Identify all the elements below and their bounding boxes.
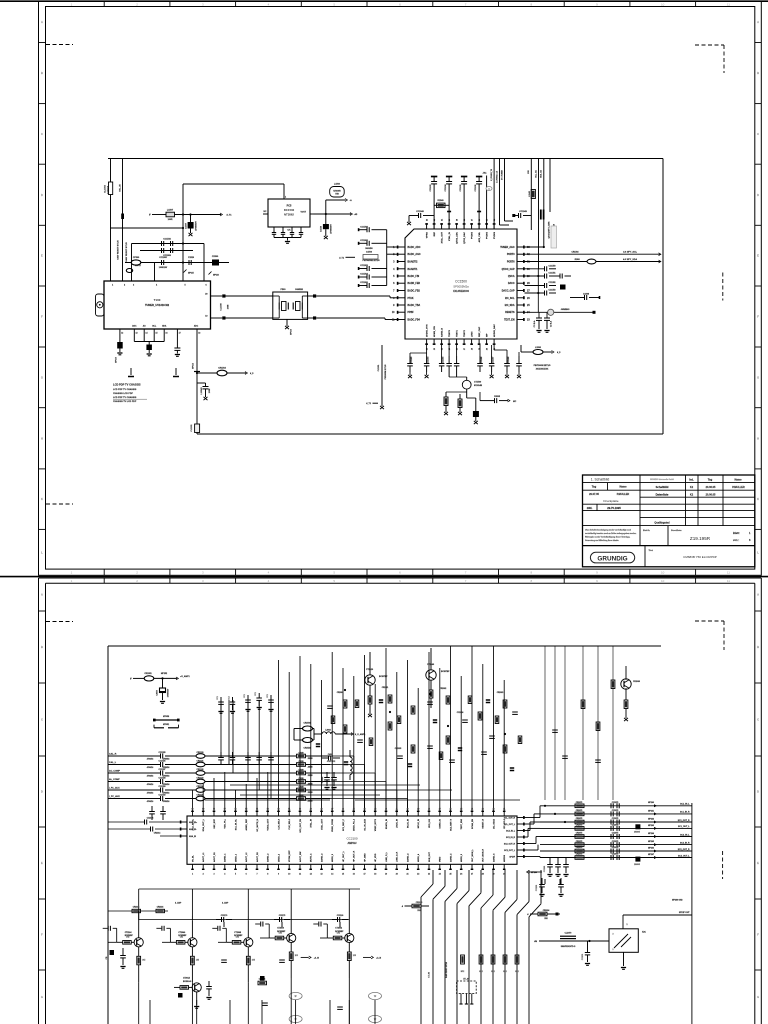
amplifier top pin 42 bbox=[310, 811, 312, 817]
capacitor CC1550 right of IC bbox=[525, 268, 545, 270]
jumper M7051 bbox=[154, 727, 164, 729]
svg-text:P.MULLER: P.MULLER bbox=[732, 486, 745, 489]
capacitor CC2 mid bbox=[258, 752, 260, 757]
svg-text:Titel:: Titel: bbox=[649, 549, 654, 552]
capacitor CC2 mid bbox=[247, 752, 249, 757]
svg-text:CC2170: CC2170 bbox=[221, 915, 228, 917]
svg-text:HP_VDD: HP_VDD bbox=[375, 853, 377, 862]
svg-text:J2585: J2585 bbox=[308, 801, 313, 803]
svg-text:CC2: CC2 bbox=[244, 694, 246, 697]
svg-text:CC1535: CC1535 bbox=[460, 185, 462, 192]
wire TUNER_AGC from pin 33 bbox=[525, 246, 544, 248]
svg-text:42: 42 bbox=[385, 807, 387, 810]
amplifier top pin 45 bbox=[342, 811, 344, 817]
wire to amplifier top pin 28 bbox=[482, 664, 484, 811]
svg-text:JUNIOR5R: JUNIOR5R bbox=[327, 761, 336, 763]
svg-text:CC1551: CC1551 bbox=[549, 273, 556, 275]
capacitor CC1536 above IC bbox=[476, 176, 482, 178]
base resistor of CT2164 bbox=[117, 941, 123, 943]
svg-text:CR2075: CR2075 bbox=[576, 833, 583, 835]
jumper JA1 bbox=[486, 176, 488, 230]
svg-text:C1546: C1546 bbox=[320, 225, 323, 232]
amplifier top pin 31 bbox=[192, 811, 194, 817]
svg-text:XTAL_IN: XTAL_IN bbox=[310, 819, 313, 828]
resistor CR2 extra bbox=[495, 716, 499, 724]
tuner bottom pin wires bbox=[119, 329, 121, 342]
svg-text:CR2133: CR2133 bbox=[197, 777, 204, 779]
wire bus run 9 below amplifier bbox=[528, 870, 530, 902]
svg-text:J2585: J2585 bbox=[308, 775, 313, 777]
resistor CR2 extra bbox=[518, 736, 522, 744]
IC CC1500 top pin 38 bbox=[463, 223, 465, 229]
resistor CR2xxx bbox=[411, 706, 415, 714]
svg-text:BADC_AGC: BADC_AGC bbox=[408, 253, 421, 256]
svg-text:4.0 3IFY_SDA: 4.0 3IFY_SDA bbox=[623, 258, 638, 261]
svg-text:SC2_OUT_R: SC2_OUT_R bbox=[504, 844, 516, 846]
collector wire of CT2164 bbox=[138, 920, 140, 938]
capacitor CC1567 below IC bbox=[506, 356, 508, 363]
svg-text:SC_MUTE_N: SC_MUTE_N bbox=[257, 819, 259, 832]
svg-text:6: 6 bbox=[246, 874, 247, 876]
svg-text:CR2080: CR2080 bbox=[337, 692, 344, 694]
svg-text:55: 55 bbox=[245, 808, 247, 810]
svg-text:CR2034: CR2034 bbox=[543, 909, 550, 912]
capacitors near bottom edge bbox=[262, 1002, 268, 1004]
amplifier bottom pin 8 bbox=[267, 864, 269, 870]
svg-text:ADC: ADC bbox=[194, 325, 199, 328]
svg-text:4700/16: 4700/16 bbox=[147, 791, 154, 794]
junction bars on pin verticals bbox=[447, 211, 451, 213]
wire collector bus row bbox=[108, 910, 168, 912]
svg-text:AGND_1: AGND_1 bbox=[224, 853, 227, 862]
svg-text:SC2_OUT_L: SC2_OUT_L bbox=[678, 855, 690, 857]
svg-text:15: 15 bbox=[155, 333, 157, 335]
amplifier bottom pin 2 bbox=[202, 864, 204, 870]
capacitors CC2250 bbox=[541, 878, 543, 884]
voltage regulator IC DC1530 bbox=[268, 199, 310, 227]
svg-text:I2C_SDA2: I2C_SDA2 bbox=[492, 818, 495, 829]
svg-text:G: G bbox=[41, 375, 43, 379]
amplifier bottom pin 13 bbox=[321, 864, 323, 870]
svg-text:58: 58 bbox=[213, 808, 215, 810]
grounds below IC capacitor row bbox=[409, 372, 411, 375]
svg-text:CR2: CR2 bbox=[279, 932, 282, 934]
svg-text:CT_08: CT_08 bbox=[429, 972, 431, 977]
wire to amplifier top pin 8 bbox=[267, 772, 269, 811]
svg-text:+A_M: +A_M bbox=[376, 957, 382, 960]
svg-text:CC2100: CC2100 bbox=[346, 837, 357, 841]
svg-text:CC1549: CC1549 bbox=[519, 210, 527, 213]
wire row C bbox=[125, 262, 229, 264]
sheet2 fold mark right middle bbox=[722, 851, 724, 879]
svg-text:ANA_IN+: ANA_IN+ bbox=[189, 821, 198, 824]
svg-text:21: 21 bbox=[406, 874, 408, 876]
svg-text:CR2075: CR2075 bbox=[576, 818, 583, 820]
svg-text:39: 39 bbox=[417, 808, 419, 810]
svg-text:3: 3 bbox=[613, 934, 614, 936]
svg-text:2: 2 bbox=[203, 874, 204, 876]
svg-text:DGND_IO: DGND_IO bbox=[440, 819, 442, 829]
sheet1 zone ticks and numbers bbox=[103, 1, 105, 6]
capacitor CC1506 bbox=[358, 285, 367, 287]
emitter network of CT2050 bbox=[290, 942, 292, 952]
capacitor C2184 bbox=[122, 948, 124, 955]
svg-text:12: 12 bbox=[121, 333, 123, 335]
lower transistor CT201A bbox=[192, 983, 201, 992]
amplifier right pin SC2_IN_R bbox=[517, 836, 525, 838]
svg-text:ANA_IN-: ANA_IN- bbox=[189, 828, 197, 831]
wire to amplifier top pin 13 bbox=[321, 680, 323, 811]
amplifier bottom pin 6 bbox=[245, 864, 247, 870]
svg-text:QVCA: QVCA bbox=[508, 275, 515, 278]
amplifier bottom pin 24 bbox=[439, 864, 441, 870]
svg-text:CR2I8: CR2I8 bbox=[298, 761, 303, 763]
svg-text:43: 43 bbox=[425, 219, 428, 221]
capacitor CC1562 below IC bbox=[441, 356, 443, 363]
svg-text:CR2075: CR2075 bbox=[576, 847, 583, 849]
svg-text:CC1533: CC1533 bbox=[430, 185, 432, 192]
resistor CR2xxx bbox=[388, 695, 392, 703]
svg-text:U9L.U5: U9L.U5 bbox=[119, 183, 121, 191]
IC CC1500 bottom pin 13 bbox=[433, 339, 435, 345]
svg-text:HP_OUT_L: HP_OUT_L bbox=[343, 850, 345, 862]
amplifier left pin ANA_IN- bbox=[180, 828, 187, 830]
svg-text:SMAFD2010TD-S: SMAFD2010TD-S bbox=[561, 945, 576, 948]
svg-text:CC1516: CC1516 bbox=[163, 239, 171, 241]
svg-text:11: 11 bbox=[299, 874, 301, 876]
svg-text:CC1536: CC1536 bbox=[475, 185, 477, 192]
amplifier bottom pin 22 bbox=[417, 864, 419, 870]
wire to amplifier top pin 3 bbox=[213, 778, 215, 811]
svg-text:A: A bbox=[757, 593, 759, 597]
svg-text:AFE_CML: AFE_CML bbox=[478, 231, 481, 242]
svg-text:von :: von : bbox=[733, 539, 739, 542]
DC1530 pin VOUT right bbox=[310, 213, 314, 215]
IC CC1500 right pin 24 bbox=[517, 311, 525, 313]
amplifier top pin 37 bbox=[256, 811, 258, 817]
svg-text:Weitergabe sowie Vervielfaelti: Weitergabe sowie Vervielfaeltigung diese… bbox=[585, 535, 631, 538]
sheet2 zone ticks and numbers bbox=[103, 578, 105, 583]
IC CC1500 left pin 9 bbox=[397, 304, 405, 306]
output net SC2_OUT_R with filter bbox=[540, 850, 692, 852]
amplifier bottom pin 11 bbox=[299, 864, 301, 870]
IC CC1500 top pin 37 bbox=[471, 223, 473, 229]
amplifier top pin 36 bbox=[245, 811, 247, 817]
output net SC1_OUT_L with filter bbox=[540, 827, 692, 829]
svg-text:57: 57 bbox=[224, 808, 226, 810]
svg-text:J2585: J2585 bbox=[308, 792, 313, 794]
resistor CR2I11 bbox=[297, 780, 306, 784]
svg-text:PVD09: PVD09 bbox=[494, 231, 496, 239]
capacitor CC2xxx bbox=[449, 759, 455, 761]
resistor CR1501 bbox=[444, 397, 448, 406]
capacitor CC2xxx bbox=[427, 745, 433, 747]
svg-text:CX500: CX500 bbox=[212, 256, 219, 258]
svg-text:CC2035: CC2035 bbox=[395, 748, 402, 750]
amplifier bottom pin 14 bbox=[331, 864, 333, 870]
amplifier top pin 53 bbox=[428, 811, 430, 817]
wire top feed horizontal bbox=[183, 183, 284, 185]
resistor CR2xxx bbox=[446, 736, 450, 744]
svg-text:B: B bbox=[41, 71, 43, 75]
svg-text:CLK_SEL0: CLK_SEL0 bbox=[278, 818, 280, 829]
capacitor C1546 blob bbox=[325, 214, 327, 224]
svg-text:U_SVHS2_C5: U_SVHS2_C5 bbox=[497, 171, 499, 183]
emitter network of CT2052 bbox=[348, 942, 350, 952]
collector wire of CT2046 bbox=[191, 920, 193, 938]
svg-text:SDA_SA: SDA_SA bbox=[540, 170, 543, 178]
svg-text:CC2190: CC2190 bbox=[337, 915, 344, 917]
svg-text:CC1583: CC1583 bbox=[411, 357, 413, 364]
svg-text:CC2160: CC2160 bbox=[159, 795, 166, 797]
svg-text:J2585: J2585 bbox=[308, 767, 313, 769]
svg-text:BADC_FB4: BADC_FB4 bbox=[408, 319, 421, 322]
svg-text:VDDA_OUT: VDDA_OUT bbox=[267, 818, 270, 830]
coil vertical bbox=[350, 757, 352, 775]
IF demodulator IC CC1500 body bbox=[405, 229, 517, 339]
wire to amplifier top pin 4 bbox=[224, 772, 226, 811]
ground of DC1530 bbox=[287, 238, 289, 241]
svg-text:L1504N: L1504N bbox=[200, 387, 203, 395]
svg-text:AOUT_L2: AOUT_L2 bbox=[245, 852, 248, 862]
inductor L1590 below IC right bbox=[521, 351, 533, 353]
amplifier bottom pin 5 bbox=[235, 864, 237, 870]
wire row B with capacitors CC1509 bbox=[140, 250, 193, 252]
IC CC1500 right pin 26 bbox=[517, 297, 525, 299]
resistor CR1504 on ADC branch bbox=[197, 372, 246, 374]
svg-text:CT2046: CT2046 bbox=[178, 931, 185, 934]
svg-text:CC2034: CC2034 bbox=[457, 711, 464, 714]
svg-text:SC1_IN_RL: SC1_IN_RL bbox=[235, 818, 237, 830]
svg-text:CC2: CC2 bbox=[229, 696, 231, 699]
wire bus run 6 below amplifier bbox=[492, 870, 494, 895]
svg-text:HP_OUT_R: HP_OUT_R bbox=[354, 850, 356, 862]
amplifier top pin 49 bbox=[385, 811, 387, 817]
amplifier bottom pin 27 bbox=[471, 864, 473, 870]
ground of C1546 bbox=[324, 236, 328, 239]
svg-text:MP252: MP252 bbox=[161, 673, 168, 675]
IC CC1500 top pin 42 bbox=[433, 223, 435, 229]
svg-text:18: 18 bbox=[198, 333, 200, 335]
capacitor CC2156 bbox=[160, 762, 162, 767]
svg-text:39: 39 bbox=[456, 219, 458, 221]
svg-text:VCOM_BYP: VCOM_BYP bbox=[289, 850, 291, 862]
svg-text:23: 23 bbox=[428, 874, 430, 876]
wire bus run 5 below amplifier bbox=[480, 870, 482, 893]
svg-text:5V_TUNER: 5V_TUNER bbox=[502, 169, 504, 180]
svg-text:Druckplatte: Druckplatte bbox=[603, 499, 619, 503]
svg-text:VOUT: VOUT bbox=[300, 212, 306, 214]
resistor CR2 extra bbox=[369, 738, 373, 746]
svg-text:MP244: MP244 bbox=[648, 832, 654, 835]
svg-text:20.06.05: 20.06.05 bbox=[706, 486, 716, 489]
svg-text:17: 17 bbox=[363, 874, 365, 876]
resistor CR2132 bbox=[196, 771, 205, 776]
capacitor CC1534 above IC bbox=[446, 176, 452, 178]
svg-text:SC2_IN_R: SC2_IN_R bbox=[506, 837, 516, 839]
wire DC1530 VIN stub bbox=[283, 184, 285, 199]
svg-text:CC1508: CC1508 bbox=[360, 240, 368, 242]
capacitor CC2157 bbox=[160, 771, 162, 776]
svg-text:10: 10 bbox=[661, 579, 665, 583]
resistor CR2 extra bbox=[355, 700, 359, 708]
svg-text:SC_IN_AUX: SC_IN_AUX bbox=[363, 818, 366, 830]
svg-text:CR2: CR2 bbox=[236, 937, 239, 939]
capacitor CC2080 bbox=[565, 858, 567, 864]
wire bus run 4 below amplifier bbox=[468, 870, 470, 891]
svg-text:2N2: 2N2 bbox=[417, 910, 420, 912]
svg-text:LVD5: LVD5 bbox=[471, 331, 473, 337]
amplifier bottom pin 29 bbox=[493, 864, 495, 870]
sheet2 schematic border top bbox=[108, 645, 661, 647]
transistor CT2052 bbox=[345, 933, 354, 942]
svg-text:4700N/35V: 4700N/35V bbox=[330, 224, 333, 234]
amplifier bottom pin 4 bbox=[224, 864, 226, 870]
wire to amplifier top pin 9 bbox=[278, 660, 280, 811]
wire tuner ADC net vertical to bottom border bbox=[196, 329, 198, 434]
amplifier top pin 54 bbox=[439, 811, 441, 817]
emitter network of CT2048 bbox=[247, 947, 249, 957]
svg-text:37: 37 bbox=[471, 219, 473, 221]
svg-text:29.70.1995: 29.70.1995 bbox=[607, 506, 621, 510]
wire bus run 8 below amplifier bbox=[516, 870, 518, 899]
wire to amplifier top pin 19 bbox=[385, 648, 387, 811]
IC CC1500 top pin 41 bbox=[441, 223, 443, 229]
testpoint oval bbox=[289, 1015, 302, 1022]
svg-text:1K5: 1K5 bbox=[353, 955, 356, 957]
wire to amplifier top pin 10 bbox=[288, 672, 290, 811]
svg-text:Blatt-Nr.: Blatt-Nr. bbox=[643, 529, 650, 532]
transistor CT2164 bbox=[134, 938, 143, 947]
svg-text:C: C bbox=[757, 718, 759, 722]
svg-text:PPBF: PPBF bbox=[408, 312, 415, 314]
wire bus run 1 below amplifier bbox=[432, 870, 434, 884]
SAW crystal element 2 bbox=[296, 302, 301, 311]
svg-text:K: K bbox=[41, 497, 43, 501]
resistor L1540 on vertical bbox=[531, 190, 535, 199]
svg-text:Ohne Schrift-Genehmigung weder: Ohne Schrift-Genehmigung weder vervielfa… bbox=[585, 529, 631, 532]
sheet2 schematic border left bbox=[107, 646, 109, 1024]
right bus vertical to sheet edge bbox=[691, 803, 693, 1024]
amplifier top pin 48 bbox=[374, 811, 376, 817]
svg-text:LRCK_IN: LRCK_IN bbox=[397, 819, 399, 829]
IC CC1500 right pin 29 bbox=[517, 275, 525, 277]
IC CC1500 left pin 1 bbox=[397, 246, 405, 248]
svg-text:RESETS: RESETS bbox=[505, 312, 515, 314]
wire bus run 7 below amplifier bbox=[504, 870, 506, 897]
svg-text:CL1501: CL1501 bbox=[378, 365, 380, 372]
svg-text:4.0 3IFY_SCL: 4.0 3IFY_SCL bbox=[623, 251, 638, 254]
svg-text:SC1_IN_R: SC1_IN_R bbox=[680, 812, 690, 814]
svg-text:CC2314: CC2314 bbox=[147, 817, 154, 820]
svg-text:C1507: C1507 bbox=[186, 222, 188, 229]
svg-text:TEST1: TEST1 bbox=[456, 329, 458, 337]
wire to amplifier top pin 14 bbox=[331, 652, 333, 811]
svg-text:CL2070: CL2070 bbox=[565, 932, 572, 934]
amplifier top pin 51 bbox=[407, 811, 409, 817]
svg-text:CR2I8: CR2I8 bbox=[298, 769, 303, 771]
capacitor CC2170 bbox=[216, 919, 221, 921]
svg-text:BC857BF: BC857BF bbox=[379, 676, 388, 678]
svg-text:BCLK_IN: BCLK_IN bbox=[407, 819, 409, 829]
svg-text:MP1/5: MP1/5 bbox=[188, 273, 195, 275]
svg-text:CC1503: CC1503 bbox=[360, 265, 368, 267]
wire left SAW bus down with label CL1501 bbox=[381, 345, 383, 406]
svg-text:VDD_PLL: VDD_PLL bbox=[225, 818, 227, 828]
capacitor CC2190 bbox=[332, 919, 337, 921]
capacitor CC1540 left bbox=[409, 215, 418, 217]
svg-text:A: A bbox=[757, 20, 759, 24]
svg-text:L2003: L2003 bbox=[325, 730, 330, 732]
amplifier bottom pin 3 bbox=[213, 864, 215, 870]
svg-text:C: C bbox=[41, 718, 43, 722]
svg-text:SCAN_EN: SCAN_EN bbox=[471, 819, 474, 829]
svg-text:CC2075: CC2075 bbox=[612, 818, 619, 820]
svg-text:60: 60 bbox=[191, 808, 193, 810]
svg-text:Name: Name bbox=[734, 478, 742, 482]
svg-text:CR2I8: CR2I8 bbox=[298, 786, 303, 788]
wire to amplifier top pin 7 bbox=[256, 778, 258, 811]
svg-text:TEST_EN: TEST_EN bbox=[504, 320, 515, 322]
collector supply bus of output stages bbox=[139, 888, 360, 890]
svg-text:CR2131: CR2131 bbox=[197, 760, 204, 762]
svg-text:R1540: R1540 bbox=[437, 199, 444, 202]
transistor CT2048 bbox=[244, 938, 253, 947]
svg-text:1: 1 bbox=[192, 874, 193, 876]
svg-text:D: D bbox=[757, 193, 759, 197]
svg-text:REF_BYP: REF_BYP bbox=[214, 818, 216, 828]
svg-text:#_AMP: #_AMP bbox=[175, 902, 182, 905]
svg-text:Datenliste: Datenliste bbox=[656, 492, 669, 496]
svg-text:AVDD_4: AVDD_4 bbox=[417, 853, 420, 862]
svg-text:CT2164: CT2164 bbox=[125, 931, 133, 934]
svg-text:CC2155: CC2155 bbox=[159, 752, 166, 754]
svg-text:CR2184: CR2184 bbox=[157, 906, 164, 909]
svg-text:DACC_CAP: DACC_CAP bbox=[502, 290, 515, 293]
svg-text:10: 10 bbox=[661, 571, 665, 575]
svg-text:52: 52 bbox=[277, 808, 279, 810]
svg-text:CC1586: CC1586 bbox=[481, 357, 483, 364]
svg-text:AVDD6: AVDD6 bbox=[503, 854, 506, 862]
svg-text:CC1540: CC1540 bbox=[416, 210, 424, 213]
capacitor CC2xxx bbox=[512, 711, 518, 713]
capacitor CC2xxx bbox=[481, 751, 487, 753]
amplifier bottom pin 18 bbox=[374, 864, 376, 870]
SAW filter F500 box bbox=[273, 292, 308, 319]
svg-text:XTAL_OUT: XTAL_OUT bbox=[320, 818, 323, 830]
amplifier bottom pin 7 bbox=[256, 864, 258, 870]
IC CC1500 right pin 30 bbox=[517, 268, 525, 270]
svg-text:CT2048: CT2048 bbox=[234, 931, 241, 934]
IC CC1500 left pin 2 bbox=[397, 253, 405, 255]
joining wires below IC bbox=[426, 345, 428, 356]
svg-text:100N: 100N bbox=[228, 304, 230, 309]
svg-text:32: 32 bbox=[492, 808, 494, 810]
svg-text:CAL_R: CAL_R bbox=[109, 752, 117, 755]
amplifier right pin SC2_OUT_R bbox=[517, 843, 525, 845]
amplifier bottom pin 1 bbox=[192, 864, 194, 870]
svg-text:36: 36 bbox=[449, 808, 451, 810]
capacitor C400 bbox=[322, 757, 328, 759]
capacitors CO B.A with grounds bbox=[538, 312, 540, 317]
svg-text:SC2_OUT_L: SC2_OUT_L bbox=[504, 850, 516, 852]
IC CC1500 bottom pin 21 bbox=[493, 339, 495, 345]
wire to amplifier top pin 30 bbox=[503, 680, 505, 811]
svg-text:CC1553: CC1553 bbox=[549, 290, 556, 292]
amplifier top pin 57 bbox=[471, 811, 473, 817]
svg-text:CC1588: CC1588 bbox=[508, 357, 510, 364]
svg-text:CR2030: CR2030 bbox=[416, 902, 423, 904]
